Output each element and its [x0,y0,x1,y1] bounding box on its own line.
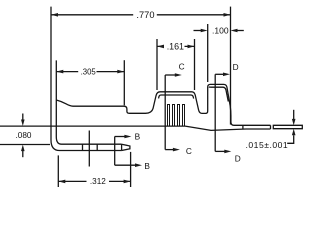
bottom bar top edge [62,143,122,145]
part outline: top edge of body, valley, wire barrel hump, valley, insulation hump, into flat tab [56,84,270,125]
dimension .100 left arrow (outside, pointing right) [194,30,203,32]
part outline: bottom edge of body (also .080 upper extension) sloping to tab bottom [0,126,271,130]
svg-text:.100: .100 [212,26,229,36]
svg-text:.015±.001: .015±.001 [246,140,289,150]
section C top arrow [165,74,176,76]
section line D-D [214,74,216,151]
svg-text:D: D [233,62,239,72]
svg-text:.305: .305 [81,68,97,77]
dimension .161 line [157,45,195,47]
dimension .100 right arrow (outside, pointing left) [236,30,244,32]
dimension .312 left arrow [58,180,65,184]
dimension .015 bottom arrow (pointing up) with leader [287,135,294,143]
dimension .312 right arrow [124,180,131,184]
section B top arrow [115,136,126,138]
part outline: tab segment 1 right end cap [270,125,272,129]
dimension .312 extension line right [130,152,132,187]
dimension .080 bottom arrow (pointing up) [22,150,24,157]
bottom bar tip [122,144,130,150]
dimension .305 extension line right [123,60,125,105]
bar centerline [88,131,90,167]
dimension .312 line [58,180,130,182]
section D bottom arrow [215,150,225,152]
dimension .312 extension line left [57,155,59,187]
section D top arrow [215,73,224,75]
serration slot 3 [178,105,180,126]
svg-text:.770: .770 [136,10,154,20]
svg-text:.080: .080 [16,131,32,140]
svg-text:B: B [144,161,150,171]
dimension .770 right arrow [224,13,231,17]
dimension .015 top arrow (pointing down) [293,110,295,120]
section line C-C [164,75,166,150]
part outline: tab segment 2 [273,125,302,128]
dimension .305 line [56,71,124,73]
serration slot 4 [183,105,185,126]
dimension .770 extension line right [230,7,232,125]
serration slot 2 [173,105,175,126]
dimension .080 lower extension line [0,144,50,146]
bar tick 2 [96,144,98,150]
bar tip tick [121,144,123,150]
tab bend tick [242,125,244,129]
dimension .305 left arrow [56,70,63,74]
svg-text:B: B [135,132,141,142]
part outline: wire barrel inner top line [159,95,194,99]
dimension .770 left arrow [51,13,58,17]
svg-text:.161: .161 [167,42,184,52]
dimension .305 right arrow [117,70,124,74]
dimension .161 right arrow [188,45,195,49]
bottom bar bottom edge [60,150,122,152]
dimension .161 extension line right [194,39,196,90]
part outline: hook outer left edge + .770 extension line [51,7,60,151]
serration slot 1 [168,105,170,126]
part outline: hook inner left edge + .305 extension line [56,60,61,144]
part outline: insulation hump inner top line [209,87,229,102]
svg-text:D: D [235,154,241,164]
svg-text:C: C [179,62,185,72]
dimension .161 left arrow [157,45,164,49]
dimension .770 line [51,14,231,16]
dimension .161 extension line left [156,39,158,90]
section line B-B [114,137,116,166]
bar tick 1 [82,144,84,150]
svg-text:C: C [186,146,192,156]
section C bottom arrow [165,149,174,151]
dimension .080 top arrow (pointing down) [22,114,24,121]
svg-text:.312: .312 [90,177,106,186]
dimension .100 extension line left [207,24,209,82]
section B bottom arrow [115,164,137,166]
